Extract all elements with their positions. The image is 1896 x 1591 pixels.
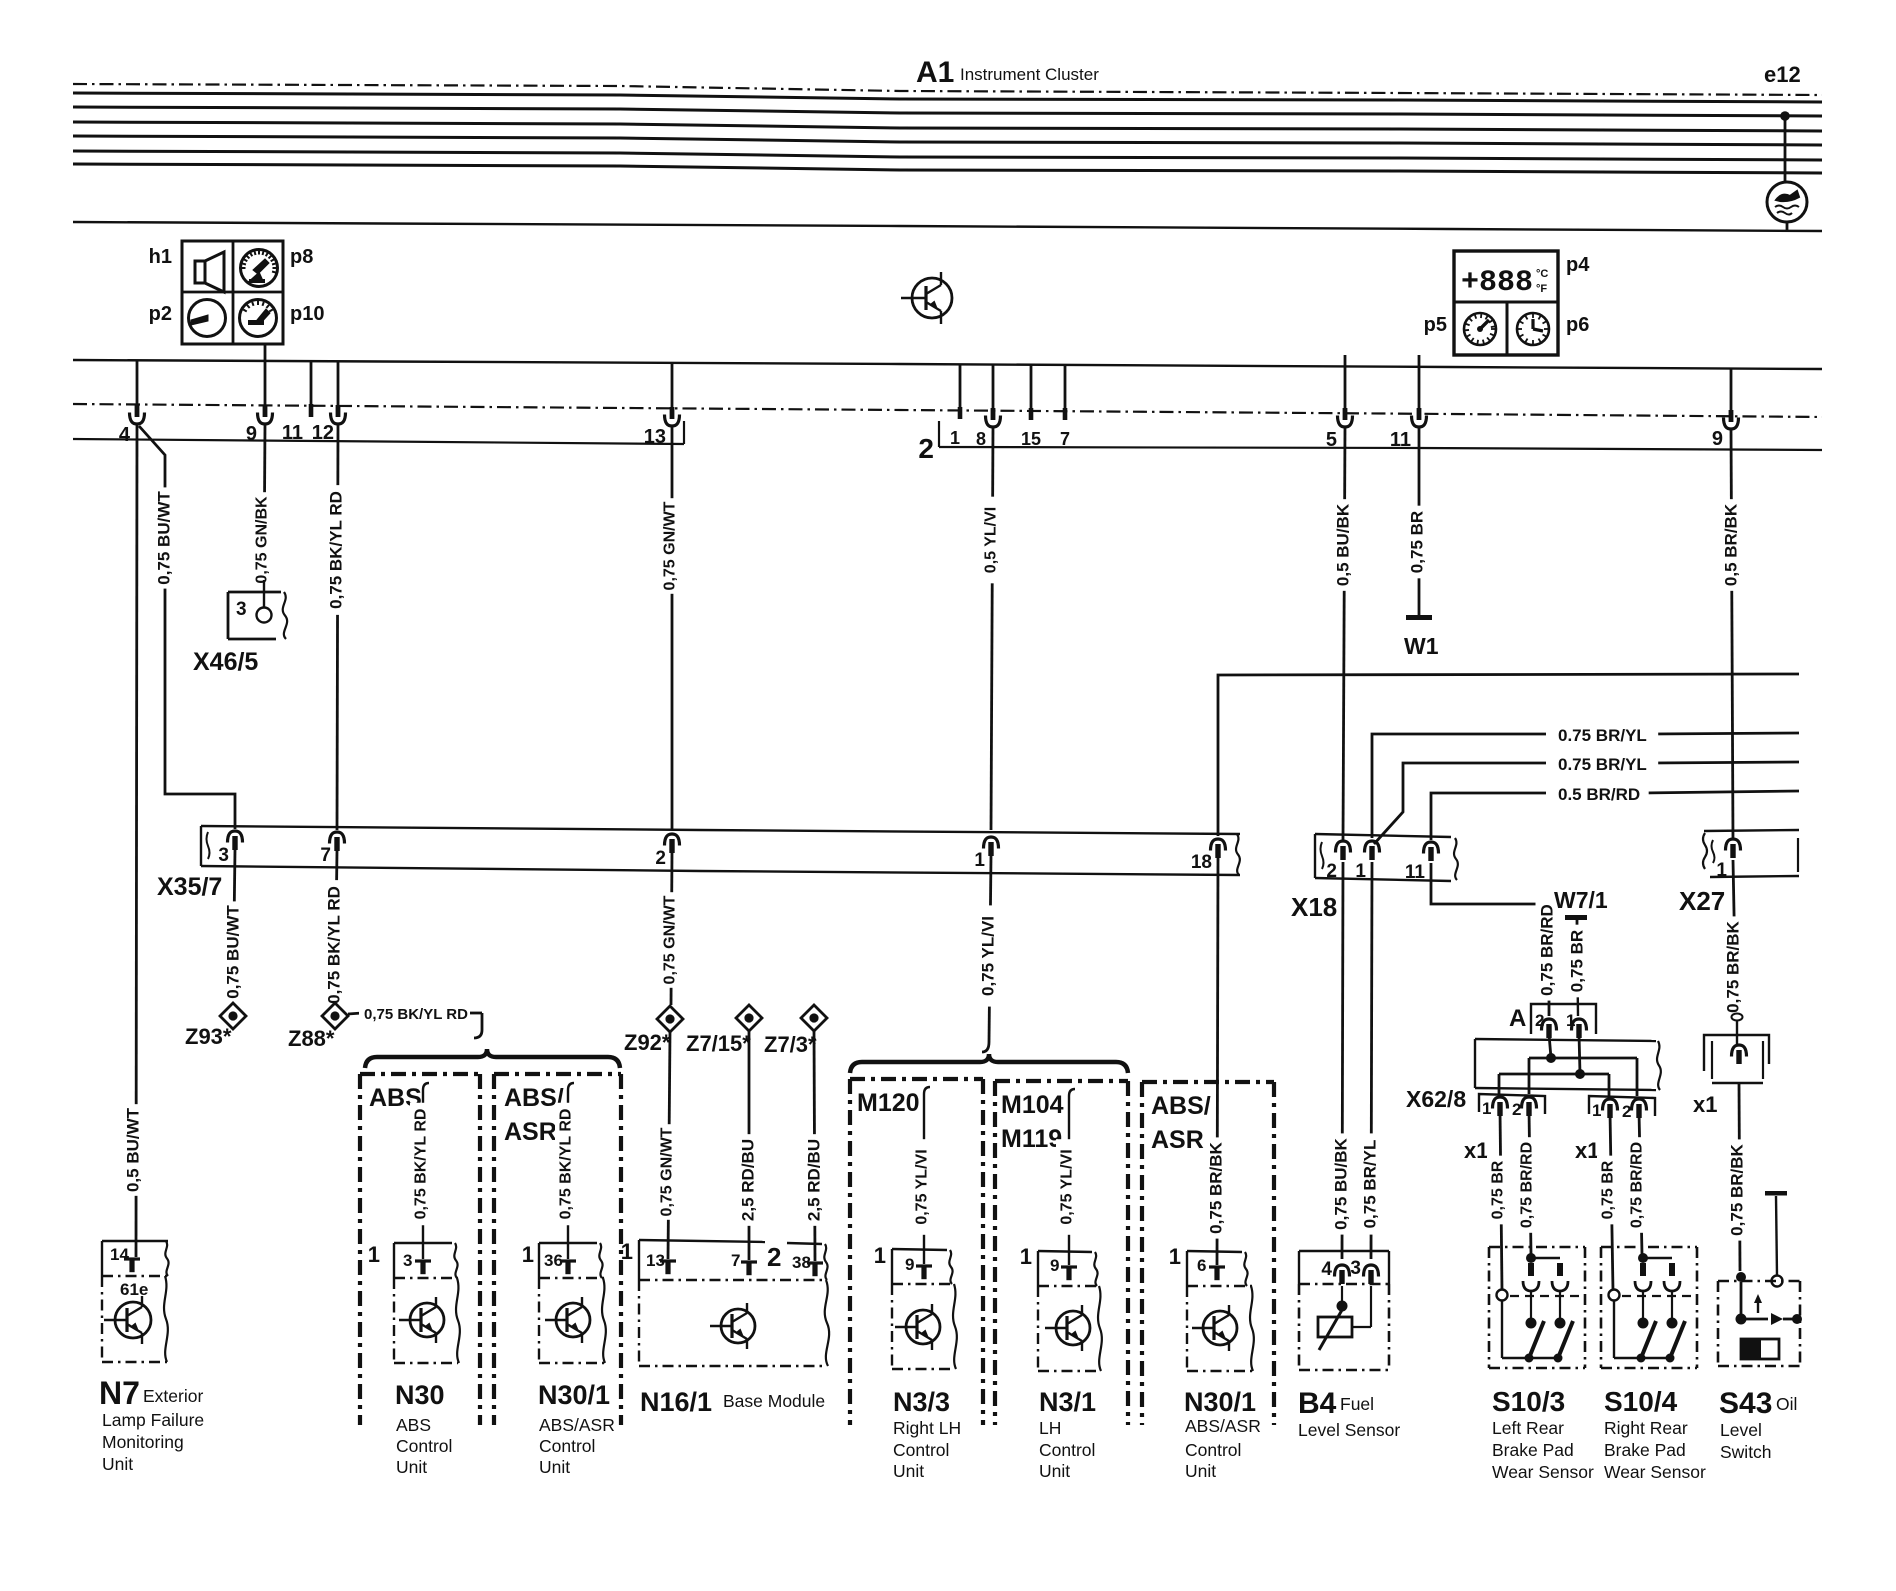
pin 18 X35/7: [1211, 839, 1226, 851]
svg-text:0,75 YL/VI: 0,75 YL/VI: [1059, 1149, 1076, 1224]
svg-text:0,75 YL/VI: 0,75 YL/VI: [979, 916, 998, 996]
wire pin12 to X35/7 pin7: [337, 424, 338, 830]
svg-text:X18: X18: [1291, 892, 1337, 922]
svg-text:M104: M104: [1001, 1091, 1064, 1119]
wire 0.75 BR/YL second: [1374, 763, 1546, 844]
svg-text:3: 3: [1350, 1258, 1361, 1279]
pin 3 B4: [1364, 1265, 1379, 1277]
svg-text:p4: p4: [1566, 254, 1590, 276]
svg-text:1: 1: [1020, 1244, 1032, 1269]
svg-text:Unit: Unit: [102, 1454, 133, 1474]
svg-text:9: 9: [905, 1255, 914, 1274]
wire pin13 to X35/7 pin2: [671, 426, 674, 830]
pin 9 right cluster: [1730, 368, 1733, 410]
svg-text:p5: p5: [1424, 314, 1447, 336]
connector x1 under X27: [1704, 1035, 1769, 1071]
svg-text:0,5 BU/BK: 0,5 BU/BK: [1334, 503, 1353, 586]
svg-text:S10/3: S10/3: [1492, 1386, 1565, 1417]
wire connector lower line left: [73, 439, 684, 444]
svg-text:Unit: Unit: [539, 1457, 570, 1477]
pin 7 X35/7: [330, 832, 345, 844]
wire X18 pin1 to B4 pin3: [1371, 862, 1372, 1259]
wire X62/8 to S10/4 pin1: [1610, 1112, 1613, 1291]
connector bracket pin13: [683, 421, 685, 444]
svg-text:Left Rear: Left Rear: [1492, 1418, 1564, 1438]
pin 11 X18: [1424, 842, 1439, 854]
fuel sender B4 internal: [1341, 1286, 1343, 1302]
svg-text:0,75 BU/BK: 0,75 BU/BK: [1332, 1137, 1351, 1229]
transistor N30/1: [556, 1303, 590, 1337]
unit N3/3 box: [892, 1249, 947, 1250]
unit N7 box: [102, 1240, 168, 1242]
svg-text:N30/1: N30/1: [1184, 1387, 1256, 1417]
svg-text:0,75 BU/WT: 0,75 BU/WT: [224, 905, 243, 999]
svg-text:0,75 BR: 0,75 BR: [1408, 511, 1427, 573]
pin 9 cluster: [264, 344, 267, 362]
pin 12 cluster: [337, 362, 340, 405]
svg-text:0.5 BR/RD: 0.5 BR/RD: [1558, 785, 1640, 804]
svg-text:LH: LH: [1039, 1418, 1061, 1438]
svg-text:Switch: Switch: [1720, 1442, 1772, 1462]
wire 0.5 BR/RD: [1431, 793, 1546, 840]
group box M120: [850, 1077, 983, 1081]
svg-text:p8: p8: [290, 246, 313, 268]
unit N30/1 box: [539, 1242, 597, 1244]
svg-text:4: 4: [119, 424, 131, 446]
icon S43 float: [1741, 1339, 1779, 1359]
svg-text:7: 7: [320, 845, 331, 866]
wire X62/8 to S10/3 pin1: [1500, 1110, 1502, 1290]
svg-text:0,75 BR/RD: 0,75 BR/RD: [1538, 904, 1557, 996]
pin 11 right cluster: [1418, 355, 1421, 366]
wire X62/8 to S10/3 pin2: [1529, 1110, 1531, 1254]
svg-text:0,5 YL/VI: 0,5 YL/VI: [983, 507, 1000, 573]
svg-text:S43: S43: [1719, 1387, 1772, 1420]
connector X62/8 left outlet: [1479, 1094, 1545, 1114]
svg-text:Fuel: Fuel: [1340, 1394, 1374, 1414]
icon gauge p5: [1464, 313, 1496, 345]
svg-text:2,5 RD/BU: 2,5 RD/BU: [805, 1139, 824, 1221]
svg-text:0,75 BR/BK: 0,75 BR/BK: [1207, 1141, 1226, 1233]
svg-text:X35/7: X35/7: [157, 873, 222, 901]
svg-text:p2: p2: [149, 303, 172, 325]
svg-text:Exterior: Exterior: [143, 1386, 203, 1406]
sensor S10/4: [1601, 1246, 1697, 1249]
svg-text:0,75 GN/WT: 0,75 GN/WT: [662, 501, 679, 590]
svg-text:0,75 BK/YL RD: 0,75 BK/YL RD: [364, 1006, 468, 1023]
svg-text:0,75 GN/WT: 0,75 GN/WT: [659, 1127, 676, 1216]
wire X62/8 A1 bus: [1579, 1034, 1580, 1074]
indicator block p4 p5 p6: [1454, 251, 1558, 355]
svg-text:0,75 BR: 0,75 BR: [1490, 1160, 1507, 1219]
svg-text:N16/1: N16/1: [640, 1387, 712, 1417]
splice Z93*: [220, 1003, 246, 1029]
brace M groups: [850, 1054, 1128, 1073]
svg-text:Control: Control: [1039, 1440, 1095, 1460]
transistor N3/3: [906, 1310, 940, 1344]
svg-text:A: A: [1509, 1005, 1526, 1032]
svg-text:1: 1: [1716, 860, 1727, 881]
svg-text:2: 2: [1326, 861, 1337, 882]
switch S43 box: [1718, 1280, 1800, 1283]
wire cluster bus lines: [73, 93, 1822, 102]
svg-text:X62/8: X62/8: [1406, 1086, 1466, 1112]
svg-text:1: 1: [1482, 1099, 1491, 1118]
splice Z7/3*: [801, 1005, 827, 1031]
splice Z88*: [322, 1003, 348, 1029]
svg-text:M119: M119: [1001, 1125, 1062, 1153]
svg-text:Oil: Oil: [1776, 1394, 1797, 1414]
transistor N7: [115, 1302, 151, 1338]
unit N3/1 box: [1038, 1251, 1092, 1252]
svg-text:4: 4: [1321, 1259, 1332, 1280]
svg-text:0,75 GN/WT: 0,75 GN/WT: [662, 895, 679, 984]
transistor cluster indicator: [912, 278, 952, 318]
svg-text:Wear Sensor: Wear Sensor: [1604, 1462, 1706, 1482]
pin 1 cluster stub: [959, 365, 962, 407]
svg-text:Level Sensor: Level Sensor: [1298, 1420, 1400, 1440]
svg-text:0,75 YL/VI: 0,75 YL/VI: [914, 1149, 931, 1224]
wire X35/7 pin1 to M brace: [989, 856, 991, 1042]
pin 13 cluster: [671, 363, 674, 407]
svg-text:1: 1: [522, 1242, 534, 1267]
svg-text:Unit: Unit: [396, 1457, 427, 1477]
pin 3 X35/7: [228, 831, 243, 843]
svg-text:0,75 BR/RD: 0,75 BR/RD: [1519, 1142, 1536, 1228]
svg-text:3: 3: [218, 845, 229, 866]
svg-text:W7/1: W7/1: [1554, 887, 1608, 913]
splice Z7/15*: [736, 1005, 762, 1031]
wire dash-dot connector boundary: [73, 404, 1822, 417]
ground W1: [1406, 615, 1432, 620]
unit N30 box: [394, 1242, 452, 1244]
svg-text:0,5 BR/BK: 0,5 BR/BK: [1722, 503, 1741, 586]
svg-text:p10: p10: [290, 303, 324, 325]
wire X35/7 pin18 to N30/1 pin6: [1217, 858, 1218, 1265]
svg-text:h1: h1: [149, 246, 172, 268]
wire S43 internal: [1741, 1318, 1768, 1321]
svg-text:18: 18: [1191, 852, 1212, 873]
svg-text:N3/1: N3/1: [1039, 1387, 1096, 1417]
svg-text:Control: Control: [539, 1436, 595, 1456]
svg-text:15: 15: [1021, 429, 1041, 449]
svg-text:ABS/ASR: ABS/ASR: [539, 1415, 615, 1435]
svg-text:Unit: Unit: [1185, 1461, 1216, 1481]
group box ABS/ASR second: [1142, 1080, 1274, 1084]
svg-text:0,75 BR: 0,75 BR: [1600, 1160, 1617, 1219]
transistor N3/1: [1056, 1311, 1090, 1345]
wire ABS/ASR internal feed: [568, 1083, 574, 1100]
svg-text:0,75 BK/YL RD: 0,75 BK/YL RD: [558, 1109, 575, 1220]
svg-text:N30/1: N30/1: [538, 1380, 610, 1410]
wire Z88 branch to ABS brace: [348, 1013, 362, 1014]
unit N16/1 box: [639, 1240, 765, 1242]
pin 2 X35/7: [665, 834, 680, 846]
pin 8 cluster: [992, 365, 995, 408]
svg-text:6: 6: [1197, 1256, 1206, 1275]
capacitor symbol above S43: [1765, 1191, 1787, 1196]
svg-text:2,5 RD/BU: 2,5 RD/BU: [739, 1139, 758, 1221]
svg-text:Brake Pad: Brake Pad: [1604, 1440, 1686, 1460]
svg-text:7: 7: [1060, 429, 1070, 449]
connector bracket 2: [938, 421, 940, 447]
svg-text:Right Rear: Right Rear: [1604, 1418, 1688, 1438]
connector X46/5: [228, 591, 281, 594]
svg-text:Right LH: Right LH: [893, 1418, 961, 1438]
svg-text:0,75 BK/YL RD: 0,75 BK/YL RD: [325, 886, 344, 1004]
wire pin9 to X27 pin1: [1731, 429, 1733, 840]
wire X35/7 pin2 to Z92: [671, 853, 672, 1005]
svg-text:0.75 BR/YL: 0.75 BR/YL: [1558, 755, 1647, 774]
pin 1 X18: [1365, 841, 1380, 853]
svg-text:0,75 GN/BK: 0,75 GN/BK: [254, 496, 271, 584]
svg-text:Z93*: Z93*: [185, 1024, 232, 1049]
wire M120 internal feed: [924, 1087, 930, 1104]
pin 1 X35/7: [984, 837, 999, 849]
svg-text:9: 9: [1050, 1256, 1059, 1275]
svg-text:x1: x1: [1464, 1138, 1488, 1163]
svg-text:ABS/: ABS/: [1151, 1092, 1211, 1120]
brace ABS groups: [365, 1049, 620, 1068]
connector x1 oval mark: [1732, 1014, 1743, 1021]
wire pin8 to X35/7 pin1: [991, 427, 993, 830]
svg-text:1: 1: [1355, 861, 1366, 882]
indicator e12 oil symbol: [1767, 182, 1807, 222]
wire ABS internal feed: [423, 1083, 429, 1100]
junction e12 on bus line: [1780, 111, 1790, 121]
svg-text:1: 1: [1592, 1101, 1601, 1120]
wire cluster line mid: [73, 222, 1822, 231]
transistor N30/1 second: [1203, 1311, 1237, 1345]
svg-text:0,75 BU/WT: 0,75 BU/WT: [155, 491, 174, 585]
svg-text:e12: e12: [1764, 62, 1801, 87]
svg-text:N7: N7: [99, 1375, 140, 1411]
wire X27 pin1 down: [1733, 860, 1736, 1016]
svg-text:9: 9: [246, 423, 257, 445]
svg-text:2: 2: [767, 1242, 781, 1272]
connector X62/8 box: [1475, 1039, 1656, 1041]
group box ABS/ASR: [494, 1072, 621, 1076]
svg-text:ABS/: ABS/: [504, 1084, 564, 1112]
svg-text:N30: N30: [395, 1380, 445, 1410]
pin 5 cluster: [1344, 355, 1347, 366]
wire Z92 to N16/1 pin13: [668, 1032, 670, 1259]
wire N7 feed 0,5 BU/WT: [136, 424, 137, 1257]
wire connector lower line right: [939, 447, 1822, 450]
svg-text:0,75 BR: 0,75 BR: [1568, 930, 1587, 992]
transistor N16/1: [721, 1309, 755, 1343]
svg-text:0,5 BU/WT: 0,5 BU/WT: [124, 1107, 143, 1192]
svg-text:3: 3: [236, 599, 247, 620]
wire pin9 to X46/5: [264, 424, 265, 580]
svg-text:Z7/3*: Z7/3*: [764, 1032, 817, 1057]
svg-text:1: 1: [950, 428, 960, 448]
svg-text:Wear Sensor: Wear Sensor: [1492, 1462, 1594, 1482]
pin 4 cluster: [136, 361, 139, 405]
svg-text:x1: x1: [1693, 1092, 1717, 1117]
svg-text:+888: +888: [1461, 266, 1533, 300]
svg-text:Unit: Unit: [893, 1461, 924, 1481]
svg-text:S10/4: S10/4: [1604, 1386, 1678, 1417]
sensor B4 box: [1299, 1250, 1389, 1252]
svg-text:Lamp Failure: Lamp Failure: [102, 1410, 204, 1430]
icon clock p6: [1517, 313, 1549, 345]
connector X62/8 right outlet: [1589, 1096, 1655, 1116]
icon gauge p2: [189, 300, 226, 337]
wire e12 drop: [1784, 116, 1787, 182]
svg-text:B4: B4: [1298, 1387, 1337, 1420]
pin 15 cluster stub: [1030, 365, 1033, 408]
svg-text:0.75 BR/YL: 0.75 BR/YL: [1558, 726, 1647, 745]
pin 11 cluster stub: [310, 362, 313, 404]
wire X35/7 pin7 to Z88: [335, 851, 337, 1002]
svg-text:2: 2: [918, 433, 934, 464]
wire Z7/15 to N16/1 pin7: [748, 1031, 751, 1260]
svg-text:°F: °F: [1536, 283, 1547, 295]
svg-text:11: 11: [1405, 862, 1426, 883]
group box M104 M119: [995, 1079, 1128, 1083]
connector X35/7 strip: [201, 826, 1240, 834]
transistor N30: [410, 1303, 444, 1337]
svg-text:M120: M120: [857, 1089, 920, 1117]
wire pin5 to X18 pin2: [1343, 427, 1345, 840]
svg-text:0,75 BK/YL RD: 0,75 BK/YL RD: [413, 1109, 430, 1220]
wire e12 to mid line: [1786, 222, 1789, 231]
pin 1 X27: [1726, 839, 1741, 851]
svg-text:N3/3: N3/3: [893, 1387, 950, 1417]
svg-text:3: 3: [403, 1251, 412, 1270]
wire X18 pin11 to X62/8 A2: [1431, 863, 1549, 912]
svg-text:ABS/ASR: ABS/ASR: [1185, 1416, 1261, 1436]
svg-text:61e: 61e: [120, 1280, 148, 1299]
svg-text:W1: W1: [1404, 633, 1439, 659]
svg-text:1: 1: [621, 1239, 633, 1264]
connector X27: [1704, 830, 1799, 831]
wire X62/8 to S10/4 pin2: [1639, 1112, 1642, 1254]
svg-text:1: 1: [368, 1242, 380, 1267]
splice Z92*: [657, 1006, 683, 1032]
pin 7 cluster stub: [1064, 365, 1067, 408]
wire pin11 to W1: [1418, 427, 1421, 617]
junction S43 input: [1736, 1272, 1746, 1282]
svg-text:0,75 BR/BK: 0,75 BR/BK: [1724, 920, 1743, 1012]
svg-text:7: 7: [731, 1251, 740, 1270]
wire branch pin4 to X35/7 pin3: [139, 426, 235, 829]
wire X18 pin2 to B4 pin4: [1342, 862, 1343, 1259]
svg-text:ASR: ASR: [504, 1118, 557, 1146]
unit N30/1 second box: [1187, 1251, 1242, 1252]
svg-text:Base Module: Base Module: [723, 1391, 825, 1411]
svg-text:0,75 BK/YL RD: 0,75 BK/YL RD: [327, 491, 346, 609]
svg-text:Z7/15*: Z7/15*: [686, 1031, 751, 1056]
wire X62/8 A2 bus: [1549, 1034, 1551, 1058]
svg-text:Control: Control: [893, 1440, 949, 1460]
wire W7/1 to X62/8 A1: [1577, 930, 1578, 1016]
pin 2 X18: [1336, 841, 1351, 853]
connector X18: [1315, 834, 1451, 837]
svg-text:ABS: ABS: [396, 1415, 431, 1435]
sensor S10/3: [1489, 1246, 1585, 1249]
svg-text:14: 14: [110, 1245, 129, 1264]
svg-text:x1: x1: [1575, 1138, 1599, 1163]
wire M104 internal feed: [1069, 1089, 1075, 1106]
group box ABS: [360, 1072, 480, 1076]
svg-text:1: 1: [874, 1243, 886, 1268]
svg-text:Level: Level: [1720, 1420, 1762, 1440]
wire feed X35/7 pin18: [1218, 674, 1799, 836]
svg-text:X46/5: X46/5: [193, 648, 258, 676]
wire x1 to S43: [1739, 1083, 1740, 1271]
svg-text:2: 2: [655, 848, 666, 869]
svg-text:0,75 BR/BK: 0,75 BR/BK: [1728, 1143, 1747, 1235]
icon gauge p8: [241, 250, 278, 287]
svg-text:Monitoring: Monitoring: [102, 1432, 184, 1452]
svg-text:Z92*: Z92*: [624, 1030, 671, 1055]
svg-text:9: 9: [1712, 428, 1723, 450]
svg-text:0,75 BR/YL: 0,75 BR/YL: [1361, 1140, 1380, 1229]
svg-text:0,75 BR/RD: 0,75 BR/RD: [1629, 1142, 1646, 1228]
arrow S43 up: [1757, 1301, 1759, 1313]
svg-text:°C: °C: [1536, 268, 1548, 280]
wire 0.75 BR/YL first: [1372, 734, 1546, 838]
svg-text:Control: Control: [1185, 1440, 1241, 1460]
wire Z7/3 to N16/1 pin38: [814, 1031, 815, 1261]
svg-text:p6: p6: [1566, 314, 1589, 336]
svg-text:A1: A1: [916, 56, 954, 89]
svg-text:X27: X27: [1679, 886, 1725, 916]
svg-text:1: 1: [974, 850, 985, 871]
wire cluster bottom line: [73, 360, 1822, 369]
svg-text:Control: Control: [396, 1436, 452, 1456]
svg-text:1: 1: [1169, 1244, 1181, 1269]
svg-text:ASR: ASR: [1151, 1126, 1204, 1154]
svg-text:Brake Pad: Brake Pad: [1492, 1440, 1574, 1460]
pin 4 B4: [1335, 1265, 1350, 1277]
svg-text:2: 2: [1622, 1102, 1631, 1121]
svg-text:2: 2: [1512, 1100, 1521, 1119]
svg-text:Instrument Cluster: Instrument Cluster: [960, 65, 1099, 84]
icon horn h1: [195, 261, 205, 283]
icon gauge p10: [240, 300, 277, 337]
indicator block h1 p8 p2 p10: [182, 241, 283, 344]
wire dash-dot cluster top boundary: [73, 84, 1822, 95]
svg-text:Z88*: Z88*: [288, 1026, 335, 1051]
wire X35/7 pin3 to Z93: [233, 850, 235, 1002]
svg-text:Unit: Unit: [1039, 1461, 1070, 1481]
